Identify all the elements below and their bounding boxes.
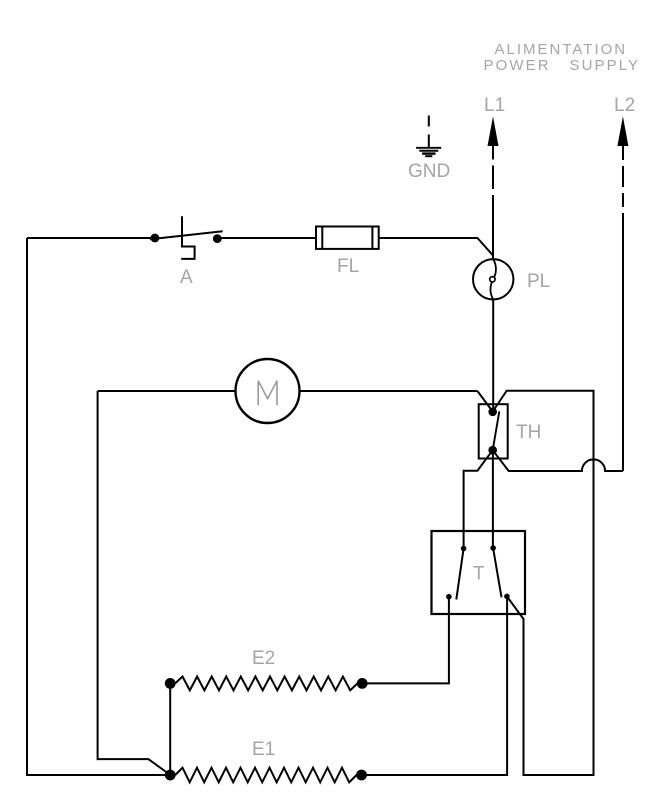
wire switch A to fuse FL: [219, 237, 316, 239]
wire switch A feed: [27, 237, 151, 239]
node E1 right: [356, 770, 367, 781]
wire E2 left to E1 left junction: [169, 683, 171, 775]
svg-text:POWER SUPPLY: POWER SUPPLY: [484, 57, 641, 74]
node E1 left: [165, 770, 176, 781]
svg-text:A: A: [180, 267, 193, 288]
wire TH top node to T lower-right contact (right loop): [493, 391, 594, 775]
wire T lower-left contact to E2 right: [366, 597, 449, 684]
svg-text:E2: E2: [252, 648, 275, 669]
thermostat T body: [432, 531, 526, 614]
switch A blade: [150, 231, 223, 239]
node T upper-left contact: [461, 546, 467, 552]
svg-text:PL: PL: [527, 271, 550, 292]
svg-text:L1: L1: [484, 95, 505, 116]
svg-text:FL: FL: [337, 256, 359, 277]
switch A actuator: [181, 216, 194, 259]
fuse FL body: [316, 227, 379, 249]
svg-text:ALIMENTATION: ALIMENTATION: [495, 41, 628, 58]
thermostat TH body: [479, 404, 508, 458]
node switch A right terminal: [213, 234, 222, 243]
motor M wires: [98, 390, 236, 392]
node T upper-right contact: [490, 545, 496, 551]
svg-text:T: T: [473, 564, 485, 585]
switch T right blade: [493, 548, 501, 597]
wire T lower-right contact to E1 right: [364, 596, 507, 775]
L1 arrow: [488, 116, 499, 259]
GND symbol: [416, 116, 441, 157]
node E2 left: [165, 678, 176, 689]
wire TH bottom node to T left contact: [464, 450, 493, 548]
thermostat TH blade: [493, 411, 500, 450]
resistor E1 zigzag: [175, 768, 356, 783]
lamp PL: [473, 259, 513, 299]
motor M body: [236, 359, 300, 423]
wire TH bottom node straight to T right contact: [492, 450, 494, 548]
label M (motor letter): [258, 381, 277, 406]
svg-text:TH: TH: [516, 422, 541, 443]
wire lamp PL to TH top node: [492, 300, 494, 411]
wire TH bottom node to L2 with hop: [493, 450, 623, 471]
L2 arrow: [617, 116, 628, 471]
switch T left blade: [456, 549, 463, 600]
node T lower-right contact: [504, 594, 510, 600]
wire fuse FL to lamp PL: [379, 238, 494, 256]
node TH top terminal: [488, 408, 497, 417]
resistor E2 zigzag: [175, 677, 357, 691]
svg-text:GND: GND: [408, 161, 450, 182]
wire left rail from switch A to E1 left: [27, 238, 170, 775]
node switch A left terminal: [151, 234, 160, 243]
node TH bottom terminal: [488, 446, 497, 455]
node T lower-left contact: [446, 594, 452, 600]
wire motor left drop to E1 left: [98, 391, 171, 775]
svg-text:L2: L2: [614, 95, 635, 116]
node E2 right: [357, 678, 368, 689]
svg-text:E1: E1: [252, 739, 275, 760]
